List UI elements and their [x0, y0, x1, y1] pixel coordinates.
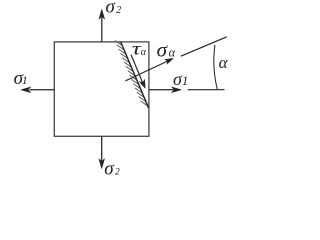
svg-text:σ: σ — [106, 0, 116, 17]
angle arc — [214, 45, 218, 90]
svg-text:1: 1 — [22, 73, 28, 87]
svg-text:1: 1 — [182, 74, 188, 88]
arrow tau_alpha — [131, 55, 145, 89]
svg-text:α: α — [169, 45, 176, 59]
arrow sigma1 left — [21, 87, 54, 93]
hatching on cut plane (left side of incline) — [115, 40, 148, 105]
svg-text:α: α — [141, 47, 147, 58]
inclined cut plane — [121, 42, 149, 108]
arrow sigma1 right — [149, 87, 181, 93]
arrow sigma2 top — [99, 9, 105, 42]
square stress element — [54, 42, 149, 136]
horizontal reference line — [188, 89, 225, 91]
svg-text:σ: σ — [104, 159, 114, 176]
svg-text:2: 2 — [115, 168, 120, 176]
arrow sigma2 bottom — [99, 136, 105, 168]
svg-text:α: α — [219, 53, 229, 72]
svg-text:2: 2 — [116, 5, 121, 16]
inclined angle ray — [181, 37, 227, 56]
svg-text:σ: σ — [157, 37, 169, 61]
arrow sigma_alpha — [126, 58, 174, 81]
